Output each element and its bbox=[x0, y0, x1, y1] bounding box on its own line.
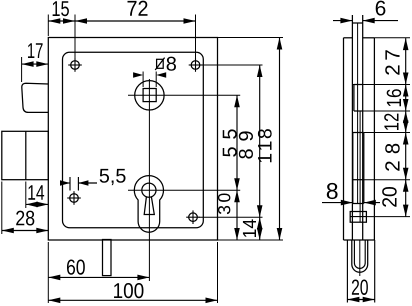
dim 20 line bbox=[403, 180, 409, 217]
case top edges bbox=[344, 37, 375, 39]
slot 5,5 ticks bbox=[70, 177, 78, 191]
screw hole 1 bbox=[68, 58, 82, 72]
dim 8 line bbox=[322, 200, 380, 206]
square symbol of label bbox=[155, 58, 164, 70]
faceplate top edge bbox=[352, 22, 362, 24]
dim 14 left text bbox=[28, 185, 44, 199]
dim 60 text bbox=[67, 259, 85, 274]
vertical centerline bbox=[148, 79, 150, 281]
ref line case top bbox=[374, 37, 410, 39]
dim 118 line bbox=[277, 38, 283, 241]
dim 89 text bbox=[239, 131, 253, 158]
bolt box side bbox=[353, 133, 364, 204]
dim 100 line bbox=[48, 298, 217, 304]
faceplate inner line bbox=[357, 24, 359, 204]
dim 28 side text bbox=[385, 144, 400, 171]
dim 27 text bbox=[385, 50, 399, 74]
dim 14 right text bbox=[243, 219, 256, 237]
fixing pin bbox=[103, 240, 112, 276]
spindle square arrows bbox=[133, 72, 166, 77]
bolt box inner line bbox=[359, 111, 361, 222]
cylinder housing sides bbox=[347, 240, 374, 303]
dim 15 line bbox=[48, 18, 75, 24]
spindle horizontal centerline bbox=[128, 94, 240, 96]
faceplate sides bbox=[352, 15, 362, 240]
dead bolt bbox=[2, 131, 49, 179]
dim 89 line bbox=[257, 65, 263, 217]
staple box bbox=[350, 212, 366, 223]
dim 60 line bbox=[48, 275, 149, 281]
dim 28 left ext line bbox=[1, 182, 3, 235]
cylinder outer U bbox=[352, 240, 368, 272]
dim 17 line bbox=[22, 61, 49, 67]
case sides bbox=[344, 38, 375, 240]
dim 55 text bbox=[223, 129, 237, 156]
dim 5,5 text bbox=[100, 169, 126, 185]
spindle square hole bbox=[143, 89, 156, 102]
dim 17 text bbox=[28, 43, 43, 58]
cylinder inner U bbox=[354, 240, 365, 268]
dim 5,5 line bbox=[60, 180, 97, 185]
dim 55 line bbox=[234, 95, 240, 190]
dim 16 line bbox=[403, 85, 409, 112]
dim 30 line bbox=[234, 190, 240, 240]
dim 118 text bbox=[258, 129, 272, 162]
screw hole 2 bbox=[189, 58, 203, 72]
label 8 for square bbox=[167, 57, 176, 71]
dim 14 left ext line bbox=[25, 182, 27, 209]
dim 20 bottom text bbox=[352, 279, 368, 295]
cylinder inner circle bbox=[142, 183, 156, 197]
ref line latch bottom bbox=[363, 110, 410, 112]
dim 14 left line bbox=[26, 202, 49, 208]
cover plate bbox=[63, 52, 204, 227]
cylinder center line bbox=[359, 240, 361, 276]
dead bolt step line bbox=[25, 131, 27, 179]
dim 27 line bbox=[403, 38, 409, 84]
dim 28 left text bbox=[16, 211, 34, 226]
dim 20 side text bbox=[382, 187, 397, 207]
ref line top edge bbox=[218, 37, 284, 39]
dim 72 line bbox=[75, 18, 196, 24]
latch box side bbox=[354, 85, 363, 112]
keyhole slot bbox=[144, 197, 154, 215]
dim 6 text bbox=[376, 1, 386, 16]
latch bolt bbox=[22, 83, 49, 112]
ref line bottom edge bbox=[218, 239, 284, 241]
dim 12 text bbox=[384, 114, 398, 130]
dim 60 ext lines bbox=[48, 242, 217, 303]
lock case outline bbox=[48, 38, 217, 241]
dim 8 text bbox=[327, 183, 338, 199]
dim 14 right line bbox=[257, 217, 263, 240]
case bottom edge bbox=[344, 239, 375, 241]
dim 20 bottom line bbox=[347, 297, 374, 303]
spindle square extension lines bbox=[143, 72, 156, 88]
dim 28 left line bbox=[2, 228, 49, 234]
dim 12 line bbox=[403, 111, 409, 133]
ref line bottom right screw bbox=[199, 216, 263, 218]
cylinder profile bbox=[134, 176, 163, 233]
dim 28 line bbox=[403, 133, 409, 180]
ref line bolt bottom bbox=[364, 179, 410, 181]
dim 100 text bbox=[114, 283, 143, 298]
dim 6 line bbox=[333, 18, 398, 24]
dim 17 extension line bbox=[21, 57, 23, 82]
screw hole 4 bbox=[186, 210, 200, 224]
dim 72 text bbox=[128, 1, 148, 16]
screw hole 3 bbox=[67, 191, 81, 205]
dim 15 text bbox=[53, 1, 69, 16]
ref line bolt top bbox=[364, 132, 410, 134]
dim 16 text bbox=[387, 89, 402, 106]
dim 15 extension lines bbox=[48, 15, 195, 59]
ref line staple bbox=[366, 216, 410, 218]
keyhole horizontal centerline bbox=[128, 189, 240, 191]
ref line top screws bbox=[202, 64, 263, 66]
dim 30 text bbox=[218, 193, 230, 214]
spindle hub circle bbox=[135, 81, 164, 110]
ref line latch top bbox=[353, 84, 410, 86]
